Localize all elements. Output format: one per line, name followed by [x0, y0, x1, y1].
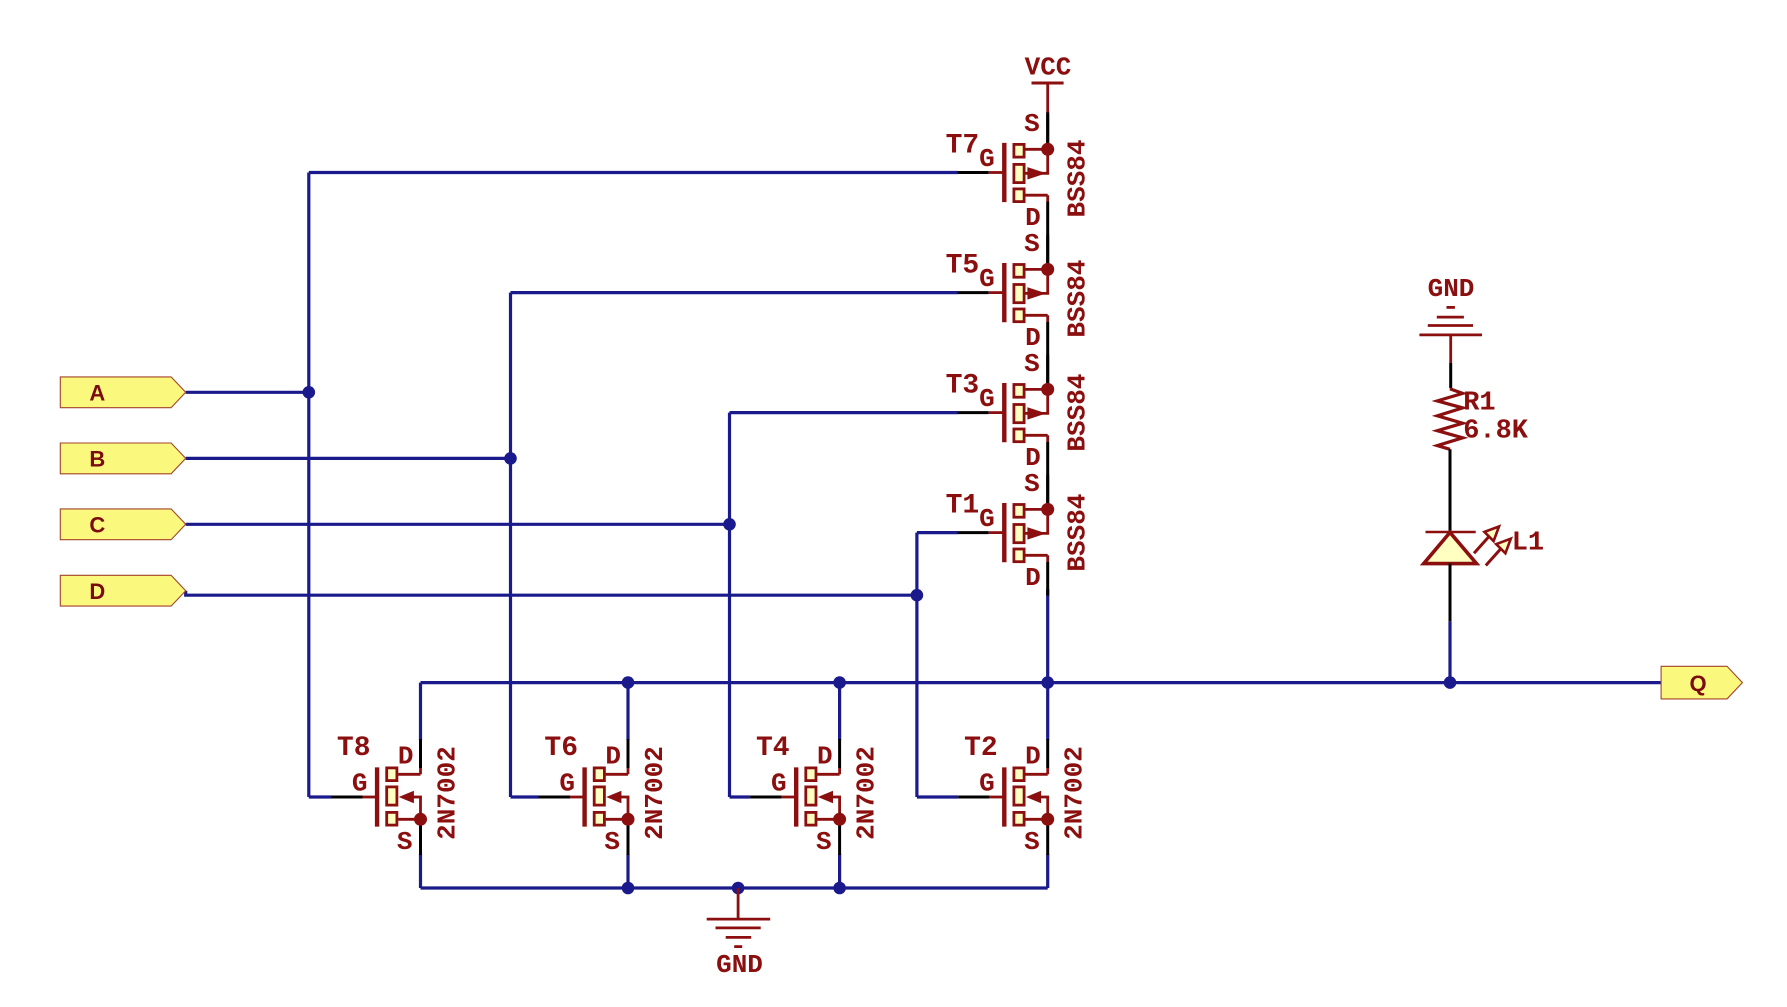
svg-text:G: G: [352, 769, 368, 799]
transistor T3 (BSS84 PMOS): [946, 349, 1093, 476]
wire C label to junction: [186, 523, 730, 526]
svg-text:S: S: [1024, 827, 1040, 857]
wire B vertical: [509, 293, 512, 797]
svg-text:BSS84: BSS84: [1063, 374, 1093, 452]
wire A vertical: [307, 173, 310, 798]
wire D to T2 gate: [917, 795, 958, 798]
svg-text:S: S: [816, 827, 832, 857]
net label Q: [1661, 666, 1742, 699]
svg-text:S: S: [1024, 349, 1040, 379]
svg-text:T5: T5: [946, 250, 980, 281]
wire T8 drain stub: [419, 683, 422, 740]
svg-text:G: G: [979, 384, 995, 414]
transistor T6 (2N7002 NMOS): [539, 733, 671, 857]
transistor T5 (BSS84 PMOS): [946, 229, 1093, 356]
wire T8 source stub: [419, 854, 422, 888]
svg-text:S: S: [1024, 469, 1040, 499]
junction C: [723, 518, 736, 531]
ground GND (top right): [1419, 274, 1482, 363]
wire B to T5 gate: [511, 291, 959, 294]
svg-text:GND: GND: [1428, 274, 1475, 304]
wire GND to R1: [1449, 363, 1452, 388]
svg-text:G: G: [979, 769, 995, 799]
svg-text:S: S: [1024, 109, 1040, 139]
junction T4 drain: [833, 676, 846, 689]
resistor R1 6.8K: [1437, 389, 1529, 450]
wire ground rail: [421, 886, 1048, 889]
junction T4 source: [833, 882, 846, 895]
svg-text:BSS84: BSS84: [1063, 139, 1093, 217]
svg-text:C: C: [89, 513, 105, 538]
svg-text:T2: T2: [964, 733, 998, 764]
wire T1 drain to output rail: [1046, 589, 1049, 683]
svg-text:S: S: [1024, 229, 1040, 259]
svg-text:G: G: [979, 144, 995, 174]
wire T2 source stub: [1046, 854, 1049, 888]
junction GND stem: [732, 882, 745, 895]
svg-text:T1: T1: [946, 490, 980, 521]
wire C to T3 gate: [730, 411, 959, 414]
svg-text:A: A: [89, 381, 105, 406]
wire T7 drain to T5 source: [1046, 236, 1049, 270]
wire T3 drain to T1 source: [1046, 476, 1049, 510]
wire D to T1 gate: [917, 531, 958, 534]
net label B: [60, 443, 185, 474]
wire T4 source stub: [838, 854, 841, 888]
svg-text:D: D: [398, 742, 414, 772]
junction T6 drain: [622, 676, 635, 689]
wire VCC to T7 source: [1046, 112, 1049, 149]
wire T2 drain stub: [1046, 683, 1049, 740]
net label C: [60, 509, 185, 540]
net label D: [60, 575, 185, 606]
svg-text:BSS84: BSS84: [1063, 260, 1093, 338]
svg-text:BSS84: BSS84: [1063, 494, 1093, 572]
svg-text:D: D: [817, 742, 833, 772]
svg-text:S: S: [604, 827, 620, 857]
svg-text:Q: Q: [1689, 671, 1706, 696]
wire A to T8 gate: [309, 795, 331, 798]
svg-text:D: D: [1025, 742, 1041, 772]
transistor T4 (2N7002 NMOS): [750, 733, 882, 857]
wire R1 to LED: [1449, 449, 1452, 532]
svg-text:6.8K: 6.8K: [1463, 417, 1529, 447]
svg-text:T8: T8: [337, 733, 371, 764]
svg-text:T4: T4: [756, 733, 790, 764]
svg-text:T7: T7: [946, 130, 980, 161]
transistor T8 (2N7002 NMOS): [331, 733, 463, 857]
svg-text:T6: T6: [544, 733, 578, 764]
junction B: [504, 452, 517, 465]
svg-text:T3: T3: [946, 370, 980, 401]
transistor T1 (BSS84 PMOS): [946, 469, 1093, 595]
power symbol VCC: [1025, 53, 1072, 115]
svg-text:G: G: [771, 769, 787, 799]
wire T4 drain stub: [838, 683, 841, 740]
wire output rail Q: [421, 681, 1662, 684]
wire A to T7 gate: [309, 171, 958, 174]
wire T6 source stub: [626, 854, 629, 888]
wire B label to junction: [186, 457, 511, 460]
transistor T7 (BSS84 PMOS): [946, 109, 1093, 236]
ground GND (bottom): [707, 888, 771, 980]
transistor T2 (2N7002 NMOS): [958, 733, 1089, 857]
wire C vertical: [728, 413, 731, 797]
svg-text:G: G: [559, 769, 575, 799]
wire LED to output rail: [1448, 621, 1451, 683]
svg-text:B: B: [89, 447, 105, 472]
wire A label to junction: [186, 391, 309, 394]
svg-text:2N7002: 2N7002: [640, 746, 670, 840]
svg-text:D: D: [605, 742, 621, 772]
svg-text:2N7002: 2N7002: [1060, 746, 1090, 840]
junction T1/T2 drain: [1041, 676, 1054, 689]
junction LED node: [1444, 676, 1457, 689]
wire C to T4 gate: [730, 795, 751, 798]
wire LED to rail: [1449, 564, 1452, 622]
wire T5 drain to T3 source: [1046, 356, 1049, 390]
junction D: [911, 589, 924, 602]
wire T6 drain stub: [626, 683, 629, 740]
svg-text:2N7002: 2N7002: [433, 746, 463, 840]
svg-text:S: S: [397, 827, 413, 857]
wire B to T6 gate: [511, 795, 539, 798]
svg-text:R1: R1: [1463, 389, 1495, 419]
wire D vertical: [915, 533, 918, 797]
svg-text:D: D: [1025, 563, 1041, 593]
svg-text:GND: GND: [716, 950, 763, 980]
svg-text:G: G: [979, 504, 995, 534]
svg-text:VCC: VCC: [1025, 53, 1072, 83]
junction T6 source: [622, 882, 635, 895]
net label A: [60, 377, 185, 408]
LED L1: [1424, 527, 1544, 566]
junction A: [303, 386, 316, 399]
wire D label to junction: [186, 591, 917, 596]
svg-text:L1: L1: [1512, 529, 1544, 559]
svg-text:D: D: [89, 579, 105, 604]
svg-text:2N7002: 2N7002: [852, 746, 882, 840]
svg-text:G: G: [979, 264, 995, 294]
